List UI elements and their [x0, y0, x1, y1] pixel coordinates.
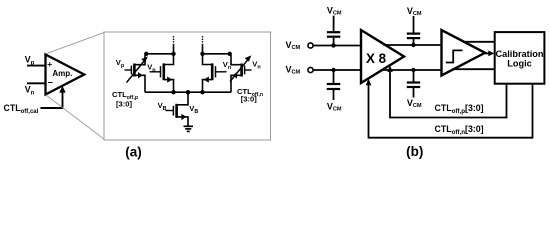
wire: common source line: [145, 91, 231, 93]
capacitor C4 (bottom output to VCM): [407, 70, 422, 109]
svg-text:(b): (b): [406, 144, 423, 159]
svg-text:X 8: X 8: [366, 51, 387, 66]
feedback bus CTL_off,n[3:0]: [366, 79, 533, 138]
terminal VCM top-left: [286, 40, 314, 51]
node dot top input: [331, 43, 335, 47]
svg-text:−: −: [48, 78, 53, 88]
wire: left output stub up: [173, 44, 175, 54]
detail box (zoomed amplifier core): [104, 32, 271, 140]
node dot top output: [411, 43, 415, 47]
svg-text:[3:0]: [3:0]: [116, 99, 133, 108]
wire top input to X8: [313, 45, 361, 47]
wire X8 bottom output to comparator: [381, 69, 442, 71]
transistor M1 (tunable, gate Vp): [125, 55, 146, 92]
Calibration Logic block: [495, 32, 545, 84]
continuation dots above left stub: [173, 41, 175, 43]
capacitor C3 (VCM to top output): [407, 6, 422, 45]
transistor M4 (tunable, gate Vn, mirrored): [231, 55, 252, 92]
svg-text:[3:0]: [3:0]: [241, 94, 258, 103]
capacitor C2 (bottom input to VCM): [327, 70, 342, 113]
transistor M5 (tail current source, gate VB): [166, 92, 189, 126]
transistor M3 (main pair, gate Vn, mirrored): [203, 54, 227, 92]
op-amp U1 (Amp.): [46, 55, 85, 95]
continuation dots above right stub: [202, 41, 204, 43]
wire Vn to op-amp: [27, 82, 46, 84]
svg-text:(a): (a): [125, 145, 142, 160]
wire CTL_off,cal into op-amp bottom: [41, 86, 66, 108]
wire: right drain node line: [203, 53, 232, 55]
wire bottom input to X8: [313, 69, 361, 71]
wire: right output stub up: [202, 44, 204, 54]
wire comparator bottom to calibration logic: [453, 68, 495, 70]
node dot bottom input: [331, 68, 335, 72]
wire X8 top output to comparator: [384, 44, 442, 46]
svg-text:Logic: Logic: [507, 58, 532, 68]
callout line bottom (triangle to detail box): [46, 95, 105, 140]
wire comparator top to calibration logic: [463, 41, 495, 43]
node dot bottom output: [411, 68, 415, 72]
feedback bus CTL_off,p[3:0]: [387, 66, 506, 118]
wire: left drain node line: [145, 53, 174, 55]
node dot right drain stub: [200, 52, 204, 56]
node dot left drain M1: [144, 52, 148, 56]
wire Vp to op-amp: [27, 65, 46, 67]
svg-text:+: +: [47, 59, 52, 69]
node dot M2 source: [171, 90, 175, 94]
tuning arrow M4: [230, 55, 251, 81]
tuning arrow M1: [127, 56, 148, 82]
node dot M3 source: [200, 90, 204, 94]
wire comparator output arrow into calibration logic: [485, 51, 494, 57]
ground: [184, 126, 194, 131]
transistor M2 (main pair, gate Vp): [150, 54, 174, 92]
node dot left drain stub: [171, 52, 175, 56]
comparator U2 (slicer): [442, 30, 486, 76]
amplifier X8: [361, 30, 404, 83]
node dot tail connection: [186, 90, 190, 94]
svg-text:Amp.: Amp.: [52, 69, 72, 78]
node dot right drain M4: [228, 52, 232, 56]
callout line top (triangle to detail box): [46, 32, 105, 54]
capacitor C1 (VCM to top input): [327, 5, 342, 45]
terminal VCM bottom-left: [286, 65, 314, 76]
